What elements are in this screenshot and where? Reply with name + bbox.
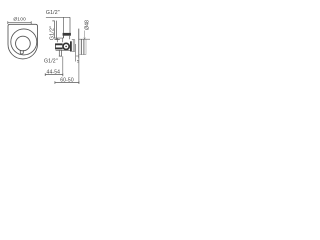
background (0, 0, 90, 90)
flange outer lines (72, 40, 75, 52)
handle circle (16, 36, 31, 51)
box behind wall light line (79, 39, 86, 55)
stem cap (54, 44, 56, 50)
svg-text:G1/2": G1/2" (44, 59, 58, 65)
stem bars (55, 44, 62, 48)
svg-text:Ø48: Ø48 (84, 20, 90, 30)
plate outline (8, 24, 38, 59)
left port stub (52, 21, 56, 40)
dim line Ø100 (8, 21, 31, 24)
escutcheon circle (11, 29, 37, 55)
wall top extension (79, 38, 90, 40)
top pipe (69, 17, 71, 33)
dim tick 5 (76, 55, 79, 57)
flange dark bar (70, 41, 72, 51)
svg-text:G1/2": G1/2" (46, 10, 60, 16)
top pipe nut (63, 33, 71, 36)
box behind wall (81, 39, 84, 55)
cartridge center (65, 46, 67, 48)
extension line port (62, 56, 64, 76)
dim line Ø48 (84, 31, 86, 40)
extension line wall (78, 58, 80, 83)
cartridge ring (63, 43, 69, 49)
body top lines (54, 38, 70, 50)
dim line 60-50 (55, 81, 79, 84)
handle notch (20, 50, 23, 54)
nut to body (64, 36, 70, 40)
svg-text:Ø100: Ø100 (13, 17, 26, 23)
leader top (46, 17, 70, 38)
bottom port (59, 50, 62, 56)
dim line 44-54 (45, 73, 63, 76)
plate surface line (75, 44, 77, 62)
wall section line (78, 29, 80, 59)
